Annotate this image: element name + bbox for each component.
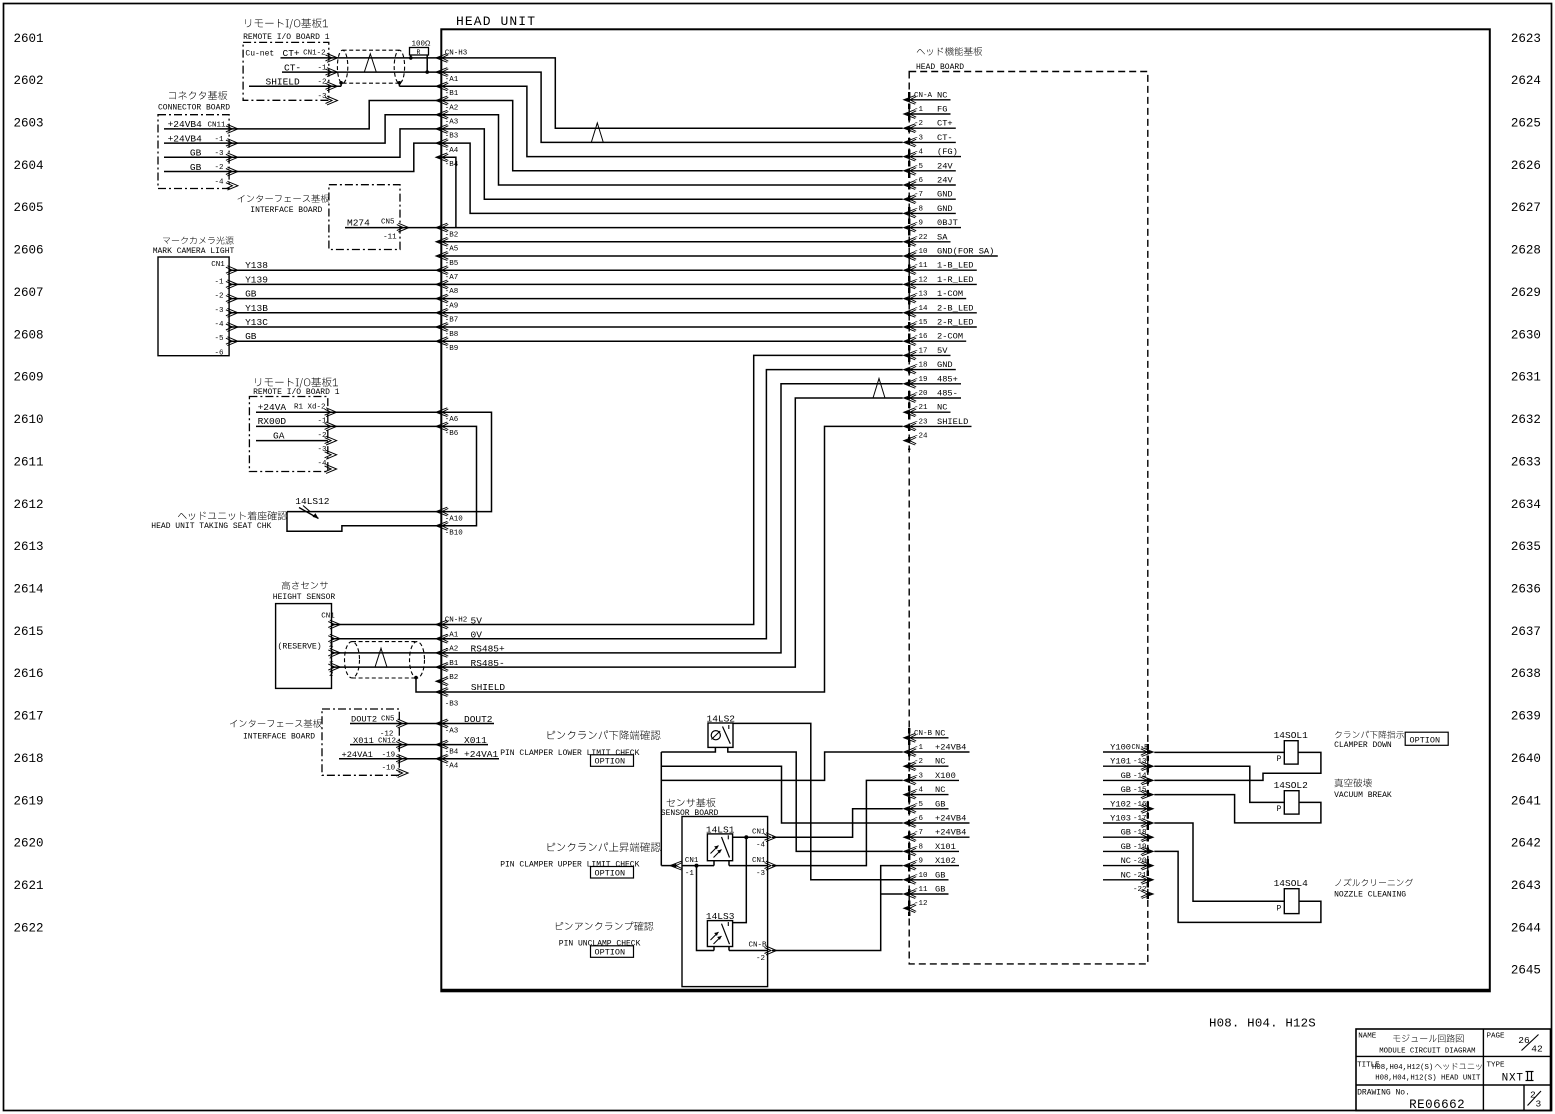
pin CN-A -3 CT- <box>904 138 916 147</box>
pin CN-H3 row 6 <box>436 139 448 148</box>
svg-text:GB: GB <box>1121 771 1131 781</box>
svg-text:2-COM: 2-COM <box>937 332 963 342</box>
svg-text:-22: -22 <box>914 234 928 242</box>
svg-text:2638: 2638 <box>1511 667 1541 681</box>
pin CN-A -17 5V <box>904 351 916 360</box>
mark camera light board <box>163 236 234 244</box>
svg-text:-3: -3 <box>215 307 225 315</box>
pin CN-H3 -B8 <box>436 323 448 332</box>
svg-text:1-R_LED: 1-R_LED <box>937 275 974 285</box>
sensor board pin CN1-3 <box>766 861 777 870</box>
svg-text:-B9: -B9 <box>445 345 459 353</box>
wire RS485- riser to CN-A-20 <box>441 398 902 667</box>
wire LS1 out to LS3 <box>733 837 747 922</box>
svg-text:-B2: -B2 <box>445 231 459 239</box>
pin CN-B -3 X100 <box>904 776 916 785</box>
wires interface board 2 to CN-H2 A3/B4/A4 <box>350 723 441 725</box>
svg-text:-B3: -B3 <box>445 701 459 709</box>
svg-text:-19: -19 <box>1133 843 1147 851</box>
board pins remote I/O 1 <box>327 54 338 63</box>
pin CN-A -18 GND <box>904 365 916 374</box>
twisted pair mark <box>364 54 376 72</box>
svg-text:2632: 2632 <box>1511 413 1541 427</box>
pin CN-A -19 485+ <box>904 379 916 388</box>
svg-text:-10: -10 <box>914 872 928 880</box>
svg-text:5V: 5V <box>937 346 948 356</box>
svg-text:-15: -15 <box>914 319 928 327</box>
pin CN-B right -17 Y103 <box>1142 819 1154 828</box>
svg-text:NXT: NXT <box>1502 1072 1524 1084</box>
svg-text:-23: -23 <box>914 418 928 426</box>
pin CN-B -9 X102 <box>904 861 916 870</box>
svg-text:-A4: -A4 <box>445 763 459 771</box>
wire SOL2 return to GB-15 <box>1154 795 1321 823</box>
svg-text:P: P <box>1277 755 1282 764</box>
svg-text:-1: -1 <box>914 106 924 114</box>
svg-text:2633: 2633 <box>1511 455 1541 469</box>
pin CN-H3 -A9 <box>436 294 448 303</box>
pin clamper upper limit check labels <box>548 842 661 852</box>
bus branch to CN-B-6 <box>661 766 902 823</box>
svg-text:HEAD UNIT: HEAD UNIT <box>456 14 536 29</box>
svg-text:OPTION: OPTION <box>595 868 626 878</box>
svg-text:2641: 2641 <box>1511 794 1541 808</box>
wire LS2 top to CN-B-10 GB <box>733 723 903 879</box>
pin CN-A -4 (FG) <box>904 152 916 161</box>
svg-text:NC: NC <box>935 757 945 767</box>
switch blade <box>299 508 319 519</box>
svg-text:DOUT2: DOUT2 <box>464 714 493 725</box>
pin CN-H3 -B9 <box>436 337 448 346</box>
wire SOL4 return to GB-19 <box>1154 851 1321 922</box>
svg-text:-18: -18 <box>914 362 928 370</box>
svg-text:R1 Xd-2: R1 Xd-2 <box>294 403 326 411</box>
svg-text:-7: -7 <box>914 191 923 199</box>
wire -A7 to CN-A <box>441 269 902 271</box>
pin CN-H3 -B2 <box>436 223 448 232</box>
svg-text:INTERFACE BOARD: INTERFACE BOARD <box>243 733 315 742</box>
svg-text:NC: NC <box>935 785 945 795</box>
bus down to LS3 stub <box>697 866 715 951</box>
svg-text:-21: -21 <box>914 404 928 412</box>
svg-text:CONNECTOR BOARD: CONNECTOR BOARD <box>158 104 230 113</box>
svg-text:X011: X011 <box>464 735 487 746</box>
svg-text:14LS12: 14LS12 <box>295 496 330 507</box>
pin CN-B right -14 GB <box>1142 776 1154 785</box>
svg-text:H08,H04,H12(S): H08,H04,H12(S) <box>1372 1064 1433 1072</box>
sensor board pin CN1-4 <box>766 833 777 842</box>
height sensor board <box>282 581 328 590</box>
svg-text:14SOL2: 14SOL2 <box>1274 780 1309 791</box>
wire -B2 to CN-A <box>441 227 902 229</box>
svg-text:GND(FOR SA): GND(FOR SA) <box>937 247 994 257</box>
svg-text:2627: 2627 <box>1511 201 1541 215</box>
svg-text:2637: 2637 <box>1511 625 1541 639</box>
remote I/O board 1 (Cu-net) <box>245 19 328 29</box>
svg-text:Y101: Y101 <box>1110 757 1131 767</box>
svg-text:-A3: -A3 <box>445 119 459 127</box>
svg-text:2619: 2619 <box>14 794 44 808</box>
svg-text:2643: 2643 <box>1511 879 1541 893</box>
svg-text:2618: 2618 <box>14 752 44 766</box>
pin CN-B -10 GB <box>904 875 916 884</box>
svg-text:-A7: -A7 <box>445 274 459 282</box>
pin CN-H3 row 3 <box>436 96 448 105</box>
svg-text:485+: 485+ <box>937 374 958 384</box>
svg-text:GB: GB <box>1121 785 1131 795</box>
svg-text:NC: NC <box>1121 856 1131 866</box>
pin CN-A -21 NC <box>904 408 916 417</box>
svg-text:NOZZLE CLEANING: NOZZLE CLEANING <box>1334 890 1406 899</box>
svg-text:2644: 2644 <box>1511 921 1541 935</box>
pin CN-B -6 +24VB4 <box>904 819 916 828</box>
svg-text:2: 2 <box>329 671 334 679</box>
svg-text:-1: -1 <box>914 744 924 752</box>
svg-text:2622: 2622 <box>14 921 44 935</box>
bus branch to CN-B-1 <box>661 752 902 780</box>
svg-text:2629: 2629 <box>1511 286 1541 300</box>
svg-text:M274: M274 <box>347 217 370 228</box>
svg-text:-4: -4 <box>756 842 766 850</box>
svg-text:Cu-net: Cu-net <box>245 50 274 59</box>
wire Y138 to CN-H3 <box>229 269 441 271</box>
connector board <box>169 91 227 100</box>
svg-text:14SOL1: 14SOL1 <box>1274 730 1309 741</box>
svg-text:CN-B: CN-B <box>1132 744 1149 752</box>
svg-text:-20: -20 <box>1133 858 1147 866</box>
wire X102 to sensor CN-B-2 <box>772 866 903 951</box>
wire GB to CN-H3 <box>229 340 441 342</box>
pin clamper lower limit check labels <box>548 730 661 740</box>
svg-text:-A2: -A2 <box>445 104 459 112</box>
svg-text:GB: GB <box>1121 828 1131 838</box>
svg-text:NC: NC <box>935 728 945 738</box>
CN1-1 internal bus <box>682 865 714 867</box>
svg-text:-11: -11 <box>383 234 397 242</box>
svg-text:CN1: CN1 <box>752 857 766 865</box>
pin CN-H3 row 0 <box>436 54 448 63</box>
svg-text:X102: X102 <box>935 856 956 866</box>
pin CN-B -1 +24VB4 <box>904 748 916 757</box>
svg-text:-8: -8 <box>914 205 923 213</box>
svg-text:-1: -1 <box>685 870 695 878</box>
pin CN-B -12 <box>904 904 916 913</box>
svg-text:CT-: CT- <box>937 133 953 143</box>
OPTION box right <box>1405 732 1448 745</box>
svg-text:-24: -24 <box>914 433 928 441</box>
svg-text:-2: -2 <box>318 79 327 87</box>
bus to sensor CN1-1 <box>661 865 675 867</box>
svg-text:NC: NC <box>937 403 947 413</box>
pin CN-H3 -A7 <box>436 266 448 275</box>
pin CN-B right -21 NC <box>1142 875 1154 884</box>
svg-text:SA: SA <box>937 232 948 242</box>
svg-text:CN-B: CN-B <box>914 730 933 738</box>
svg-text:SHIELD: SHIELD <box>937 417 968 427</box>
svg-text:-A6: -A6 <box>445 416 459 424</box>
net stubs DOUT2 X011 +24VA1 <box>441 723 494 725</box>
pin CN-A -14 2-B_LED <box>904 308 916 317</box>
svg-text:(FG): (FG) <box>937 147 958 157</box>
shield drain dots <box>339 81 343 85</box>
wire GB to CN-H3 <box>229 298 441 300</box>
svg-text:NC: NC <box>1121 870 1131 880</box>
wire X100 to sensor CN1-3 <box>772 780 903 865</box>
svg-text:X100: X100 <box>935 771 956 781</box>
svg-text:CLAMPER DOWN: CLAMPER DOWN <box>1334 741 1392 750</box>
svg-text:X101: X101 <box>935 842 956 852</box>
pin CN-A CN-A NC <box>904 95 916 104</box>
svg-text:-16: -16 <box>914 333 928 341</box>
pin CN-B CN-B NC <box>904 733 916 742</box>
wire -A5 to CN-A <box>441 241 902 243</box>
svg-text:CN1: CN1 <box>321 613 335 621</box>
svg-text:-5: -5 <box>914 801 924 809</box>
pins A6 B6 A10 B10 <box>436 408 448 417</box>
svg-text:2639: 2639 <box>1511 710 1541 724</box>
shielded cable (Cu-net) <box>337 50 347 83</box>
wire SHIELD to cable shield <box>249 85 341 87</box>
pin CN-A -15 2-R_LED <box>904 323 916 332</box>
wire RX00D to B6 <box>256 425 441 427</box>
svg-text:2608: 2608 <box>14 328 44 342</box>
svg-text:-A1: -A1 <box>445 76 459 84</box>
svg-text:2613: 2613 <box>14 540 44 554</box>
svg-text:-A5: -A5 <box>445 246 459 254</box>
svg-text:2615: 2615 <box>14 625 44 639</box>
svg-text:2604: 2604 <box>14 159 44 173</box>
pin CN-A -6 24V <box>904 181 916 190</box>
svg-text:-14: -14 <box>914 305 928 313</box>
wire GA stub <box>256 440 328 442</box>
svg-text:2631: 2631 <box>1511 371 1541 385</box>
svg-text:-22: -22 <box>1133 886 1147 894</box>
pin CN-B -8 X101 <box>904 847 916 856</box>
svg-text:2626: 2626 <box>1511 159 1541 173</box>
svg-text:CN5: CN5 <box>381 716 395 724</box>
svg-text:GND: GND <box>937 360 953 370</box>
svg-text:Ω: Ω <box>425 39 431 48</box>
svg-text:-1: -1 <box>215 278 225 286</box>
wire -B7 to CN-A <box>441 312 902 314</box>
pin CN-A -1 FG <box>904 110 916 119</box>
svg-text:GND: GND <box>937 190 953 200</box>
svg-text:-6: -6 <box>914 177 924 185</box>
pin CN-A -8 GND <box>904 209 916 218</box>
svg-text:-3: -3 <box>914 134 924 142</box>
LS2 left stub to +24 bus <box>661 747 715 752</box>
svg-text:1-B_LED: 1-B_LED <box>937 261 974 271</box>
head unit taking seat labels <box>178 511 287 520</box>
pin CN-B -7 +24VB4 <box>904 833 916 842</box>
wire GB-11 stub <box>881 893 903 895</box>
pin CN-A -7 GND <box>904 195 916 204</box>
clamper down labels <box>1335 731 1404 739</box>
svg-text:-3: -3 <box>756 870 766 878</box>
roman numeral II <box>1527 1072 1529 1081</box>
svg-text:2603: 2603 <box>14 117 44 131</box>
LS3 right stub to CN-B-2 pin <box>728 947 730 951</box>
wire Y139 to CN-H3 <box>229 283 441 285</box>
svg-text:2645: 2645 <box>1511 964 1541 978</box>
svg-text:-13: -13 <box>914 291 928 299</box>
svg-text:H08,H04,H12(S) HEAD UNIT: H08,H04,H12(S) HEAD UNIT <box>1375 1074 1481 1082</box>
svg-text:-20: -20 <box>914 390 928 398</box>
svg-text:0BJT: 0BJT <box>937 218 958 228</box>
pin CN-B -4 NC <box>904 790 916 799</box>
pin CN-A -23 SHIELD <box>904 422 916 431</box>
mark camera pin 6 GB <box>227 337 238 346</box>
svg-text:2620: 2620 <box>14 837 44 851</box>
svg-text:-10: -10 <box>382 764 396 772</box>
OPTION box 2 <box>591 867 634 879</box>
svg-text:HEAD UNIT TAKING SEAT CHK: HEAD UNIT TAKING SEAT CHK <box>151 522 271 531</box>
wire CN-H3 row3 to CN-A-5 <box>441 101 902 171</box>
wire -B9 to CN-A <box>441 340 902 342</box>
pin CN-A -24 <box>904 436 916 445</box>
pin CN-A -2 CT+ <box>904 124 916 133</box>
pin CN-A -20 485- <box>904 394 916 403</box>
svg-text:CN1: CN1 <box>685 857 699 865</box>
svg-text:GB: GB <box>935 870 945 880</box>
svg-text:DRAWING No.: DRAWING No. <box>1357 1088 1410 1097</box>
svg-text:+24VA: +24VA <box>258 402 287 413</box>
svg-text:CN1: CN1 <box>752 828 766 836</box>
wires height sensor to CN-H2 <box>332 624 442 626</box>
pin CN-A -9 0BJT <box>904 223 916 232</box>
svg-text:-17: -17 <box>1133 815 1147 823</box>
svg-text:GB: GB <box>935 885 945 895</box>
interface board 2 <box>230 719 322 727</box>
svg-text:2610: 2610 <box>14 413 44 427</box>
pin CN-A -10 GND(FOR SA) <box>904 252 916 261</box>
svg-text:-4: -4 <box>215 178 225 186</box>
wire Y13B to CN-H3 <box>229 312 441 314</box>
pin CN-B right CN-B Y100 <box>1142 748 1154 757</box>
svg-text:NAME: NAME <box>1358 1033 1377 1041</box>
svg-text:MODULE CIRCUIT DIAGRAM: MODULE CIRCUIT DIAGRAM <box>1379 1047 1475 1055</box>
svg-text:2616: 2616 <box>14 667 44 681</box>
svg-text:-4: -4 <box>215 321 225 329</box>
twisted pair mark CT pair <box>591 123 603 142</box>
pin CN-H3 -B5 <box>436 252 448 261</box>
svg-text:P: P <box>1277 905 1282 914</box>
pin CN-H3 row 2 <box>436 82 448 91</box>
+24 bus vertical <box>660 752 662 866</box>
shield drain wire to B1 <box>398 83 400 87</box>
svg-text:-2: -2 <box>215 293 224 301</box>
svg-text:REMOTE I/O BOARD 1: REMOTE I/O BOARD 1 <box>243 33 330 42</box>
remote I/O board 1 (lower) <box>255 378 338 388</box>
HEAD UNIT boundary box <box>441 29 1490 991</box>
mark camera pin 2 Y139 <box>227 280 238 289</box>
svg-text:485-: 485- <box>937 389 958 399</box>
wire -B8 to CN-A <box>441 326 902 328</box>
sensor board <box>667 798 716 807</box>
svg-text:Y103: Y103 <box>1110 814 1131 824</box>
svg-text:24V: 24V <box>937 161 953 171</box>
wires connector board to CN-H3 A2/A3/B3/A4 <box>164 101 441 129</box>
pins A3 B4 A4 <box>436 719 448 728</box>
svg-text:(RESERVE): (RESERVE) <box>278 641 322 651</box>
svg-text:-B4: -B4 <box>445 161 459 169</box>
svg-text:2624: 2624 <box>1511 74 1541 88</box>
svg-text:2642: 2642 <box>1511 837 1541 851</box>
svg-text:-A4: -A4 <box>445 147 459 155</box>
wire -B5 to CN-A <box>441 255 902 257</box>
svg-text:CN-H3: CN-H3 <box>445 49 468 57</box>
svg-text:2636: 2636 <box>1511 583 1541 597</box>
svg-text:-4: -4 <box>914 787 924 795</box>
shielded cable (height sensor) <box>345 642 360 678</box>
svg-text:-4: -4 <box>914 149 924 157</box>
svg-text:-B7: -B7 <box>445 317 459 325</box>
nozzle cleaning labels <box>1335 879 1413 887</box>
wire GB-5 to sensor CN1-4 <box>772 809 903 837</box>
svg-text:-10: -10 <box>914 248 928 256</box>
wire CN-H3 row4 to CN-A-6 <box>441 115 902 185</box>
svg-text:-B8: -B8 <box>445 331 459 339</box>
mark camera pin 3 GB <box>227 294 238 303</box>
svg-text:HEAD BOARD: HEAD BOARD <box>916 63 964 72</box>
svg-text:-2: -2 <box>914 758 923 766</box>
svg-text:-19: -19 <box>914 376 928 384</box>
OPTION box 3 <box>591 946 634 958</box>
svg-text:CN-H2: CN-H2 <box>445 616 468 624</box>
svg-text:-3: -3 <box>914 772 924 780</box>
wire Y100 to SOL1 <box>1154 751 1284 753</box>
svg-text:FG: FG <box>937 105 947 115</box>
twisted pair mark RS485 <box>375 648 387 667</box>
svg-text:CN1-2: CN1-2 <box>303 50 326 58</box>
svg-text:-16: -16 <box>1133 801 1147 809</box>
wire +24VA to A6 <box>256 411 441 413</box>
wire CN-H3 B4 to row -9 <box>441 157 456 227</box>
svg-text:R: R <box>417 49 421 56</box>
svg-text:TYPE: TYPE <box>1487 1061 1506 1069</box>
svg-text:-A8: -A8 <box>445 288 459 296</box>
wire SOL1 return to GB-14 <box>1154 752 1321 780</box>
svg-text:-8: -8 <box>914 843 923 851</box>
svg-text:P: P <box>1277 805 1282 814</box>
pin CN-A -11 1-B_LED <box>904 266 916 275</box>
svg-text:2634: 2634 <box>1511 498 1541 512</box>
wire CN-H3 row1 to CN-A-3 <box>441 72 902 142</box>
svg-text:24V: 24V <box>937 176 953 186</box>
wire RS485+ riser to CN-A-19 <box>441 384 902 653</box>
svg-text:CN1: CN1 <box>211 261 225 269</box>
pin CN-B right -20 NC <box>1142 861 1154 870</box>
OPTION box 1 <box>591 755 634 767</box>
svg-text:2640: 2640 <box>1511 752 1541 766</box>
sensor board pin CN1-1 <box>670 861 682 870</box>
pin CN-H3 row 1 <box>436 68 448 77</box>
svg-text:MARK CAMERA LIGHT: MARK CAMERA LIGHT <box>153 247 235 256</box>
svg-text:Y100: Y100 <box>1110 743 1131 753</box>
pin CN-H3 -A5 <box>436 237 448 246</box>
svg-text:-14: -14 <box>1133 772 1147 780</box>
svg-text:-2: -2 <box>756 955 765 963</box>
wire CN-H3 row0 to CN-A-2 <box>441 58 902 128</box>
pin CN-H3 row 5 <box>436 125 448 134</box>
svg-text:Y102: Y102 <box>1110 799 1131 809</box>
wire CN-H3 row5 to CN-A-7 <box>441 129 902 199</box>
svg-text:VACUUM BREAK: VACUUM BREAK <box>1334 791 1392 800</box>
svg-text:1-COM: 1-COM <box>937 289 963 299</box>
pin CN-A -12 1-R_LED <box>904 280 916 289</box>
pin CN-A -22 SA <box>904 237 916 246</box>
svg-text:42: 42 <box>1531 1044 1543 1055</box>
